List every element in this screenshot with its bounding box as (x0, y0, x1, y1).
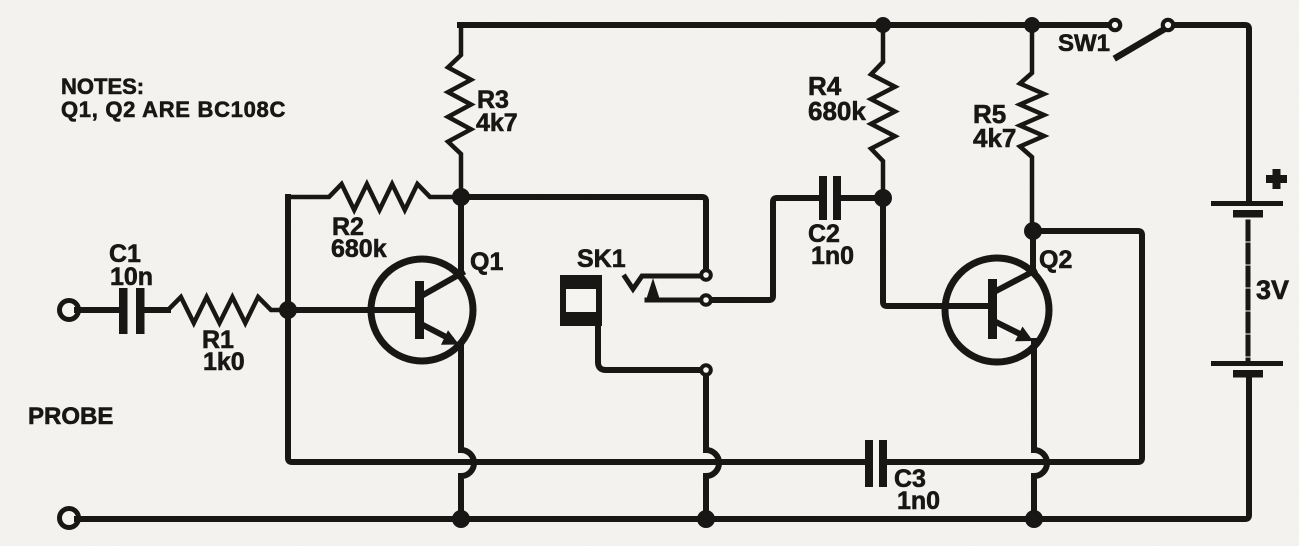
junction node ground SK1 (697, 510, 715, 528)
svg-text:Q1, Q2 ARE BC108C: Q1, Q2 ARE BC108C (61, 97, 286, 122)
SK1 middle terminal (701, 295, 711, 305)
junction node ground Q2 emitter (1025, 510, 1043, 528)
SK1 upper terminal (701, 270, 711, 280)
svg-text:SK1: SK1 (577, 245, 626, 273)
probe tip terminal (60, 301, 79, 320)
svg-text:Q2: Q2 (1039, 246, 1072, 274)
wire Q2 emitter down with hop over C3 wire, to ground rail (1034, 341, 1047, 519)
junction node R3 bottom (452, 188, 470, 206)
resistor R2 (288, 184, 458, 210)
battery BT1 negative short thick plate (1233, 370, 1263, 378)
junction node ground Q1 emitter (452, 510, 470, 528)
capacitor C1 (119, 288, 145, 334)
wire Q1 collector vertical (458, 197, 464, 272)
wire ground bottom rail (77, 377, 1249, 519)
wire Q2 collector vertical (1030, 231, 1036, 271)
svg-text:10n: 10n (110, 263, 153, 291)
junction node Q2 collector (1024, 222, 1042, 240)
SK1 lower leaf wire (647, 298, 699, 303)
wire SK1 sleeve to ground rail with hop (706, 377, 719, 519)
wire SK1 sleeve down and right to lower contact (598, 325, 699, 370)
svg-text:1n0: 1n0 (811, 242, 854, 270)
wire Q1 emitter down with hop over feedback wire, to ground rail (461, 344, 474, 519)
wire top rail from R3 top to SW1 left contact (460, 22, 1108, 28)
junction node Q1 base (279, 301, 297, 319)
battery BT1 negative long plate (1211, 361, 1283, 366)
svg-text:680k: 680k (331, 235, 387, 263)
svg-text:4k7: 4k7 (973, 123, 1016, 153)
wire probe tip to C1 (77, 307, 119, 313)
svg-text:680k: 680k (808, 96, 866, 126)
wire R4/C2 node down to Q2 base (883, 198, 988, 306)
SK1 lower contact terminal (701, 365, 711, 375)
svg-text:1n0: 1n0 (897, 487, 940, 515)
wire from node R3/R2/Q1-collector right toward SK1 (461, 197, 706, 268)
wire top rail right segment from SW1 right contact to battery positive (1175, 25, 1249, 201)
capacitor C3 (865, 440, 887, 487)
capacitor C2 (819, 176, 841, 220)
junction node R4 top rail (875, 17, 891, 33)
svg-text:1k0: 1k0 (203, 348, 245, 376)
SK1 tip contact triangle (646, 278, 660, 300)
battery BT1 positive short thick plate (1233, 210, 1263, 218)
wire C2 right plate to R4 bottom node (841, 195, 883, 201)
resistor R3 (448, 25, 471, 197)
svg-text:NOTES:: NOTES: (61, 74, 144, 99)
svg-text:4k7: 4k7 (476, 109, 518, 137)
wire C1 to R1 (144, 307, 168, 313)
switch SW1 lever (1117, 30, 1163, 57)
battery BT1 dashed cell link (1246, 222, 1251, 361)
switch SW1 left contact (1110, 20, 1120, 30)
svg-text:3V: 3V (1256, 275, 1289, 305)
svg-text:Q1: Q1 (470, 248, 503, 276)
jack socket SK1 body (560, 275, 602, 326)
transistor Q1 (371, 259, 473, 361)
SK1 break contact upper leaf with V notch (625, 276, 699, 289)
junction node R5 top rail (1024, 17, 1040, 33)
battery BT1 positive long plate (1211, 201, 1283, 206)
probe sleeve terminal (60, 509, 79, 528)
transistor Q2 (945, 258, 1049, 362)
svg-text:PROBE: PROBE (28, 403, 113, 430)
junction node C2/R4 (874, 189, 892, 207)
svg-text:SW1: SW1 (1058, 30, 1110, 57)
wire feedback left: R2 left lead down through Q1 base node to C3 (288, 197, 864, 462)
resistor R1 (168, 297, 288, 323)
switch SW1 right contact (1163, 20, 1173, 30)
resistor R4 (871, 25, 895, 198)
label battery plus (1266, 169, 1287, 189)
wire Q1 base (288, 307, 415, 313)
wire C3 right to Q2 collector node (888, 231, 1142, 462)
wire SK1 middle terminal up to C2 (713, 198, 819, 300)
resistor R5 (1020, 25, 1044, 231)
